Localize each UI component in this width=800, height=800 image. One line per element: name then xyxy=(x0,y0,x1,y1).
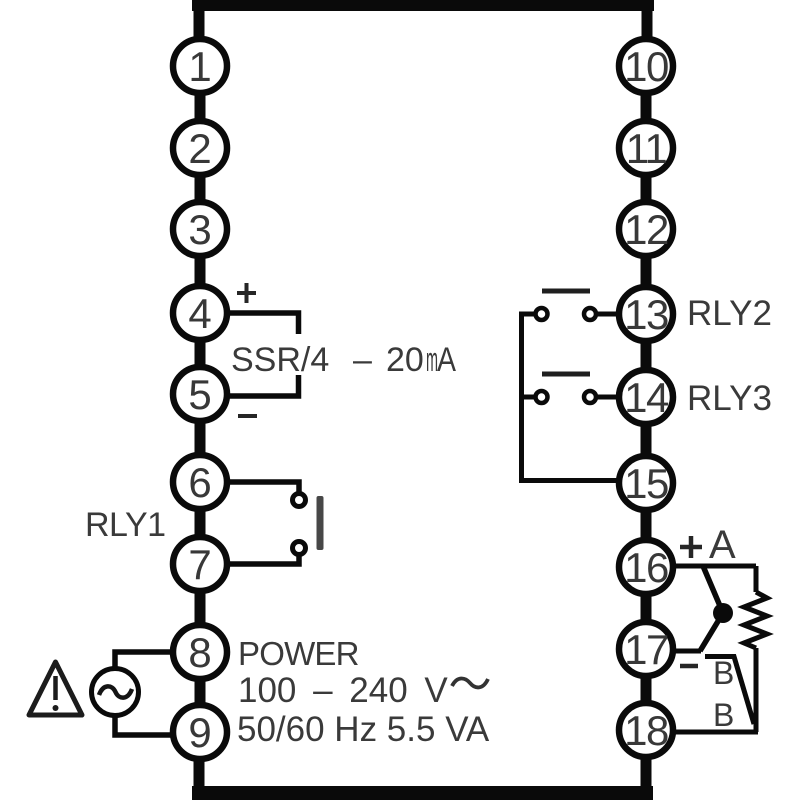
svg-text:RLY2: RLY2 xyxy=(687,294,772,333)
svg-text:7: 7 xyxy=(188,541,211,588)
wire: AC source to terminal 8 xyxy=(115,652,171,668)
svg-text:3: 3 xyxy=(188,206,211,253)
switch RLY2: left contact xyxy=(536,308,548,320)
wire: relay common bus to terminal 15 xyxy=(522,314,623,481)
terminal 9 xyxy=(173,705,227,759)
svg-text:4: 4 xyxy=(188,290,211,337)
warning triangle exclamation mark xyxy=(53,676,58,700)
wire: RLY3 contact to terminal 14 xyxy=(594,395,622,400)
terminal 17 xyxy=(619,622,673,676)
wire: enclosure top edge xyxy=(192,0,654,11)
terminal 1 xyxy=(173,39,227,93)
label: - polarity at terminal 17 xyxy=(680,664,698,669)
terminal 11 xyxy=(619,121,673,175)
label: - polarity at terminal 5 xyxy=(238,414,257,418)
AC source symbol xyxy=(92,669,139,716)
wire: terminal 17 to sensor xyxy=(646,649,701,654)
wire: right terminal bus (terminals 10-18 column) xyxy=(641,4,653,800)
node: sensor junction dot xyxy=(713,603,733,623)
terminal 18 xyxy=(619,703,673,757)
terminal 12 xyxy=(619,202,673,256)
svg-text:20: 20 xyxy=(386,341,424,379)
terminal 3 xyxy=(173,202,227,256)
svg-text:8: 8 xyxy=(188,629,211,676)
switch RLY1: lower contact xyxy=(293,542,306,555)
wire: enclosure bottom edge xyxy=(192,786,653,800)
svg-text:B: B xyxy=(713,697,734,733)
svg-text:B: B xyxy=(713,655,734,691)
resistor: RTD element xyxy=(744,592,767,648)
terminal 16 xyxy=(619,540,673,594)
terminal 5 xyxy=(173,367,227,421)
switch RLY3: left contact xyxy=(536,391,548,403)
label: + polarity at terminal 16 xyxy=(680,536,702,558)
wire: terminal 4 output (+) with down stub xyxy=(200,313,299,334)
svg-text:15: 15 xyxy=(624,460,668,507)
svg-text:SSR/4: SSR/4 xyxy=(231,341,329,379)
svg-text:–: – xyxy=(353,341,372,379)
wire: terminal 5 output (-) with up stub xyxy=(200,375,299,396)
svg-text:POWER: POWER xyxy=(238,635,359,672)
svg-text:13: 13 xyxy=(624,291,668,338)
svg-text:RLY3: RLY3 xyxy=(687,379,772,418)
warning triangle symbol xyxy=(29,662,82,715)
switch RLY2: blade bar xyxy=(542,289,590,294)
wire: RLY2 contact to terminal 13 xyxy=(594,312,622,317)
wire: terminal 18 to RTD B lead xyxy=(646,730,758,735)
switch RLY3: blade bar xyxy=(542,372,590,377)
svg-text:5: 5 xyxy=(188,371,211,418)
svg-text:9: 9 xyxy=(188,709,211,756)
svg-text:1: 1 xyxy=(188,43,211,90)
switch RLY3: right contact xyxy=(584,391,596,403)
svg-text:A: A xyxy=(437,341,456,379)
svg-text:6: 6 xyxy=(188,459,211,506)
svg-text:11: 11 xyxy=(626,125,667,172)
wire: RLY3 left contact to bus xyxy=(519,395,537,400)
svg-text:17: 17 xyxy=(624,626,668,673)
terminal 14 xyxy=(619,370,673,424)
wire: left terminal bus (terminals 1-9 column) xyxy=(194,4,206,800)
svg-text:A: A xyxy=(709,523,736,567)
wire: AC source to terminal 9 xyxy=(115,716,171,735)
wire: RLY2 left contact to bus xyxy=(519,312,537,317)
terminal 7 xyxy=(173,537,227,591)
svg-text:2: 2 xyxy=(188,125,211,172)
terminal 2 xyxy=(173,121,227,175)
svg-text:12: 12 xyxy=(624,206,668,253)
terminal 6 xyxy=(173,455,227,509)
terminal 15 xyxy=(619,456,673,510)
terminal 4 xyxy=(173,286,227,340)
switch RLY1: blade bar xyxy=(317,496,324,550)
wire: sensor V junction (16 to 17) xyxy=(700,566,723,651)
svg-text:16: 16 xyxy=(624,544,668,591)
label: + polarity at terminal 4 xyxy=(237,283,256,303)
switch RLY1: upper contact xyxy=(293,494,306,507)
wire: second B lead diagonal xyxy=(705,657,754,725)
wire: terminal 16 to RTD A lead xyxy=(646,564,756,569)
wire: terminal 6 to RLY1 contact xyxy=(200,482,299,493)
wire: RTD right leg bottom xyxy=(754,648,759,732)
svg-text:18: 18 xyxy=(624,707,668,754)
wire: terminal 7 to RLY1 contact xyxy=(200,555,299,564)
terminal 13 xyxy=(619,287,673,341)
svg-text:50/60 Hz 5.5 VA: 50/60 Hz 5.5 VA xyxy=(237,710,490,749)
svg-text:14: 14 xyxy=(624,374,669,421)
terminal 8 xyxy=(173,625,227,679)
wire: RTD right leg top xyxy=(754,566,759,592)
svg-text:RLY1: RLY1 xyxy=(85,506,166,544)
svg-text:10: 10 xyxy=(624,43,668,90)
svg-text:100 – 240 V: 100 – 240 V xyxy=(238,671,448,710)
switch RLY2: right contact xyxy=(584,308,596,320)
terminal 10 xyxy=(619,39,673,93)
